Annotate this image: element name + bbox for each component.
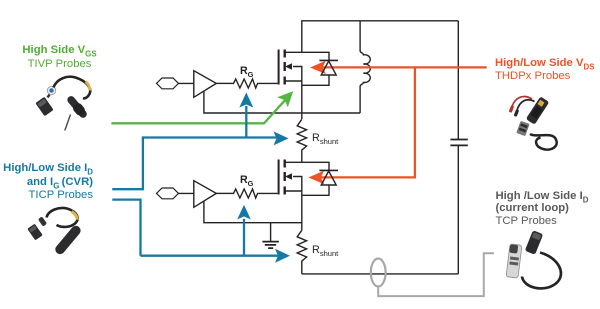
probe photo TIVP (35, 77, 90, 131)
op-amp buffer U2 (179, 181, 217, 208)
wire blue bottom horizontal (141, 255, 280, 257)
resistor RG2 (232, 189, 259, 198)
wire top rail (302, 21, 459, 53)
wire blue top horizontal (142, 136, 278, 138)
diode D1 branch wires (302, 52, 329, 85)
probe photo TCP (506, 230, 561, 288)
probe photo TICP (27, 208, 82, 256)
arrowhead blue at Rshunt2 (275, 249, 290, 263)
wire Q2 source down (301, 191, 303, 230)
wire U1 to RG1 (216, 82, 232, 84)
wire feedback U2 (204, 202, 302, 223)
wire orange VDS routing (321, 67, 487, 177)
wire gray TCP loop lead (378, 253, 494, 296)
wire RG1 to Q1 gate (259, 82, 278, 84)
label High/Low Side VDS THDPx (495, 57, 600, 83)
arrowhead green VGS (277, 91, 293, 107)
wire bottom rail (302, 273, 459, 275)
arrowhead blue at Rshunt1 (274, 131, 289, 145)
arrowhead blue at RG1 (239, 93, 253, 108)
wire blue TICP stub lower (112, 200, 140, 256)
gray current loop probe (371, 253, 494, 296)
wire green VGS probe arrow (111, 100, 285, 124)
inductor L1 (360, 21, 370, 113)
hexagon input node upper (157, 78, 179, 89)
wire U2 to RG2 (216, 192, 232, 194)
resistor RG1 (232, 79, 259, 88)
hexagon input node lower (157, 188, 179, 199)
capacitor C1 (450, 140, 467, 146)
label Rshunt2 (312, 244, 338, 256)
wire Q1 source down (301, 81, 303, 119)
wire right rail lower (457, 146, 459, 274)
transistor Q2 (279, 160, 302, 195)
label High/Low Side ID TCP (496, 190, 600, 228)
transistor Q1 (279, 50, 302, 85)
wire blue up arrow 1 (245, 106, 247, 138)
wire right rail upper (457, 21, 459, 139)
diode D2 branch wires (302, 162, 329, 195)
probe photo THDPx (509, 96, 557, 149)
resistor Rshunt1 (297, 119, 306, 162)
ground (262, 223, 279, 248)
arrowhead orange at Q1 (310, 61, 326, 75)
label High/Low Side ID TICP (0, 162, 93, 202)
wire RG2 to Q2 gate (259, 192, 278, 194)
label RG2 (240, 174, 253, 186)
wire feedback U1 (204, 92, 360, 114)
label RG1 (240, 65, 253, 77)
resistor Rshunt2 (297, 230, 306, 274)
diode D2 symbol (319, 170, 338, 185)
wire blue up arrow 2 (243, 219, 245, 256)
label Rshunt1 (312, 132, 338, 144)
arrowhead blue at RG2 (237, 205, 251, 220)
wire blue TICP stub upper (112, 138, 143, 190)
op-amp buffer U1 (179, 71, 217, 98)
diode D1 symbol (319, 60, 338, 75)
label High Side VGS (1, 44, 118, 72)
arrowhead orange at Q2 (308, 171, 324, 185)
